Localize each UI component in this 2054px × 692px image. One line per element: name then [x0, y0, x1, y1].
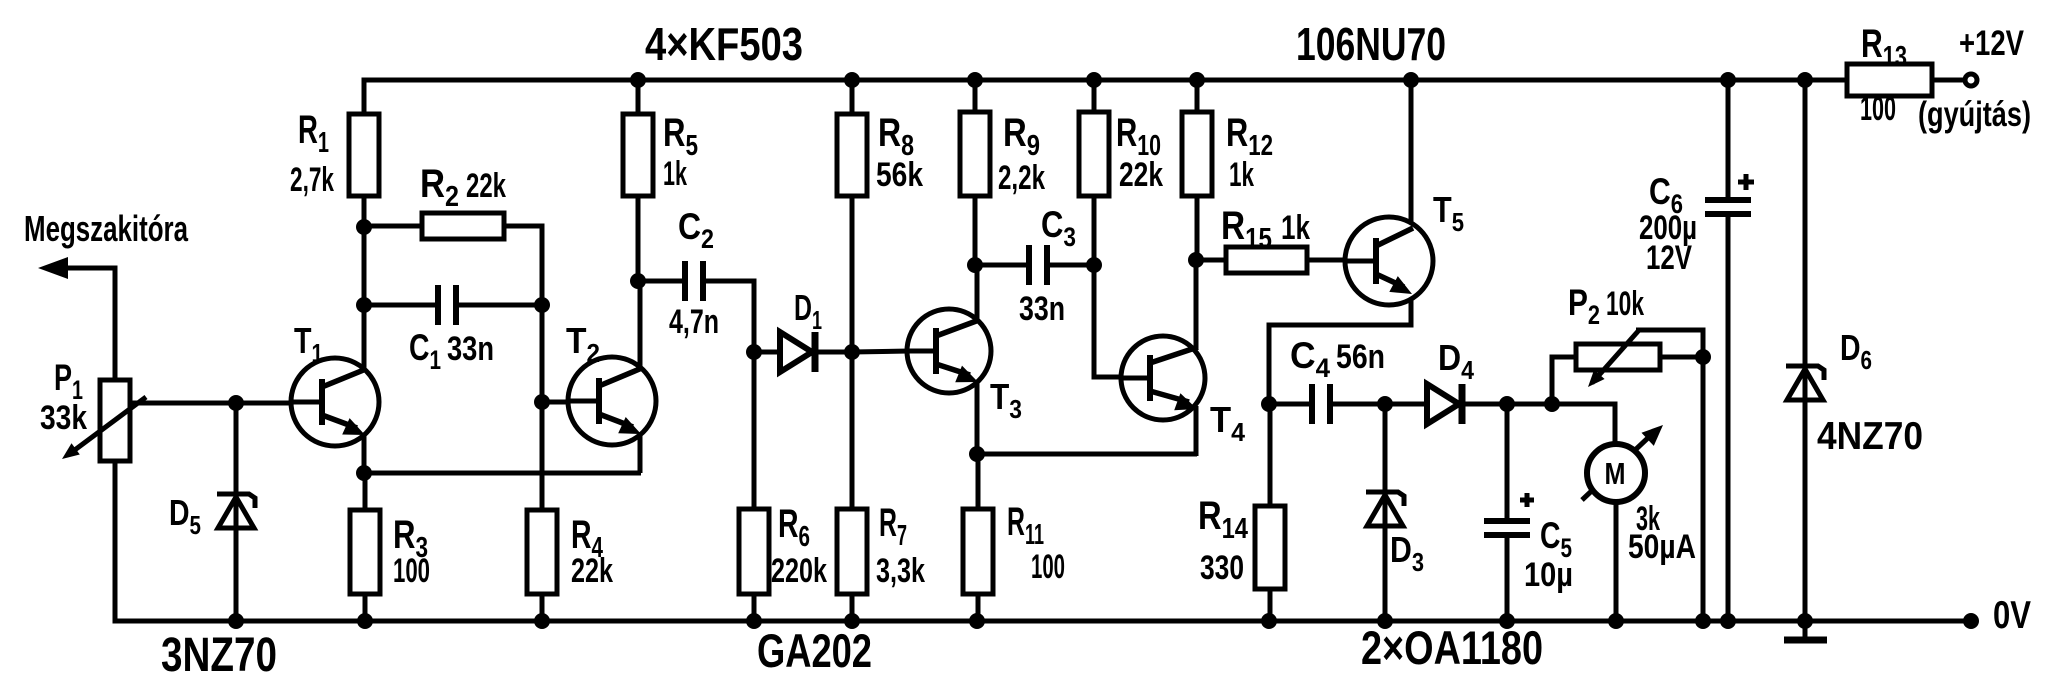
capacitor C2: [685, 261, 703, 301]
junction node (1385,404): [1377, 396, 1393, 412]
diode D4: [1427, 384, 1462, 424]
junction node (975,80): [967, 72, 983, 88]
terminal +12V: [1965, 74, 1977, 86]
value C6 12V: [1646, 239, 1692, 277]
label C1 value 33n: [409, 327, 494, 375]
label R10: [1116, 111, 1161, 162]
label type 2xOA1180: [1361, 621, 1543, 674]
junction node (236,403): [228, 395, 244, 411]
svg-text:22k: 22k: [1119, 156, 1163, 194]
label R7: [879, 501, 907, 552]
label D1: [794, 287, 822, 335]
junction node (1805,621): [1797, 613, 1813, 629]
value C2 4,7n: [669, 303, 719, 341]
junction node (542,402): [534, 394, 550, 410]
wire C2 left lead: [638, 279, 685, 284]
value R12 1k: [1229, 156, 1254, 194]
wire P2 node to 0V rail: [1701, 357, 1706, 621]
svg-text:2,2k: 2,2k: [998, 159, 1045, 197]
wire R2 left to R1 node: [364, 224, 422, 229]
label D4: [1438, 337, 1474, 385]
label R15 value 1k: [1221, 204, 1310, 255]
label 0V: [1993, 594, 2031, 637]
value R7 3,3k: [876, 552, 925, 590]
svg-text:0V: 0V: [1993, 594, 2031, 637]
label R2: [420, 162, 459, 213]
junction node (1094,265): [1086, 257, 1102, 273]
value R11 100: [1031, 548, 1065, 586]
junction node (638,80): [630, 72, 646, 88]
resistor R14: [1255, 404, 1285, 621]
label +12V: [1959, 24, 2025, 63]
svg-text:100: 100: [1031, 548, 1065, 586]
svg-text:100: 100: [393, 552, 430, 590]
zener diode D5: [217, 403, 255, 621]
label D3: [1390, 529, 1424, 577]
resistor R6: [739, 352, 769, 621]
value R14 330: [1200, 549, 1244, 587]
wire C4 left lead: [1269, 402, 1312, 407]
resistor R3: [350, 473, 380, 621]
wire C1 left lead: [364, 303, 438, 308]
svg-text:GA202: GA202: [757, 624, 872, 677]
wire C1 right lead: [456, 303, 542, 308]
label T1: [294, 320, 323, 368]
junction node (1728,80): [1720, 72, 1736, 88]
transistor T2: [568, 283, 656, 473]
label T2: [566, 320, 600, 368]
transistor T5: [1345, 80, 1433, 305]
junction node (977,454): [969, 446, 985, 462]
wire T1/T2 emitter link: [364, 471, 641, 476]
resistor R5: [623, 82, 653, 283]
wire P2 wiper tap: [1636, 330, 1703, 357]
label R5: [663, 111, 698, 162]
capacitor C5: [1484, 404, 1534, 621]
wire T2 base stub: [542, 400, 570, 405]
wire R15 left lead: [1196, 258, 1226, 263]
label P2 value 10k: [1568, 282, 1644, 330]
resistor R1: [349, 82, 379, 230]
label Megszakitora net: [24, 208, 189, 249]
wire T5 emitter to C4 node: [1269, 294, 1411, 406]
value R10 22k: [1119, 156, 1163, 194]
label R13: [1861, 22, 1907, 73]
value P1 33k: [40, 399, 87, 437]
wire C3 right lead: [1047, 263, 1094, 268]
junction node (542,621): [534, 613, 550, 629]
zener diode D3: [1366, 404, 1404, 621]
svg-text:330: 330: [1200, 549, 1244, 587]
label C3: [1041, 204, 1076, 252]
label gyujtas: [1918, 95, 2031, 134]
junction node (1805,80): [1797, 72, 1813, 88]
label R14: [1198, 494, 1248, 545]
label R1: [298, 108, 329, 159]
label R4: [571, 513, 603, 564]
svg-text:3NZ70: 3NZ70: [161, 629, 277, 682]
label R9: [1003, 111, 1040, 162]
value R2 22k: [466, 167, 506, 205]
svg-text:12V: 12V: [1646, 239, 1692, 277]
zener diode D6: [1786, 78, 1824, 638]
label D6 type 4NZ70: [1817, 415, 1923, 458]
junction node (754,352): [746, 344, 762, 360]
capacitor C4: [1312, 384, 1330, 424]
wire top +12V rail: [364, 80, 1847, 118]
svg-text:1k: 1k: [1229, 156, 1254, 194]
value C3 33n: [1019, 290, 1065, 328]
svg-text:100: 100: [1860, 90, 1896, 128]
svg-text:50µA: 50µA: [1628, 528, 1696, 566]
resistor R11: [963, 454, 993, 621]
junction node (365,621): [357, 613, 373, 629]
junction node (1728,621): [1720, 613, 1736, 629]
svg-text:22k: 22k: [466, 167, 506, 205]
junction node (1552,404): [1544, 396, 1560, 412]
resistor R9: [960, 82, 990, 267]
svg-text:4NZ70: 4NZ70: [1817, 415, 1923, 458]
resistor R15: [1226, 247, 1307, 273]
svg-text:+12V: +12V: [1959, 24, 2025, 63]
junction node (852,621): [844, 613, 860, 629]
svg-text:2×OA1180: 2×OA1180: [1361, 621, 1543, 674]
terminal 0V: [1963, 613, 1979, 629]
label D6: [1840, 327, 1872, 375]
wire bottom 0V rail: [115, 458, 1971, 621]
value R4 22k: [571, 552, 613, 590]
svg-text:56n: 56n: [1336, 338, 1385, 376]
resistor R12: [1182, 82, 1212, 262]
label R3: [393, 513, 428, 564]
value C5 10u: [1524, 556, 1573, 594]
transistor T4: [1121, 260, 1205, 456]
transistor T1: [291, 224, 379, 475]
label type 106NU70: [1296, 18, 1446, 70]
junction node (364,227): [356, 219, 372, 235]
resistor R10: [1079, 82, 1109, 265]
wire P1 wiper to T1 base: [130, 401, 293, 406]
junction node (1269,621): [1261, 613, 1277, 629]
svg-text:2,7k: 2,7k: [290, 161, 334, 199]
junction node (1197,80): [1189, 72, 1205, 88]
resistor R4: [527, 510, 557, 621]
label D5: [169, 492, 201, 540]
junction node (542,305): [534, 297, 550, 313]
junction node (852,80): [844, 72, 860, 88]
wire C2 right lead corner: [703, 281, 754, 354]
transistor T3: [907, 263, 991, 456]
label C4 value 56n: [1290, 335, 1385, 383]
label T5: [1433, 189, 1464, 237]
svg-text:56k: 56k: [876, 156, 923, 194]
svg-text:10k: 10k: [1606, 285, 1644, 323]
svg-text:33k: 33k: [40, 399, 87, 437]
junction node (638,281): [630, 273, 646, 289]
junction node (1196,260): [1188, 252, 1204, 268]
label R6: [778, 502, 810, 553]
label R11: [1007, 500, 1044, 551]
junction node (364,305): [356, 297, 372, 313]
wire P2 right lead: [1660, 355, 1703, 360]
wire C3 node to T4 base: [1094, 263, 1123, 377]
label type 3NZ70: [161, 629, 277, 682]
value R6 220k: [771, 552, 827, 590]
junction node (1703,621): [1695, 613, 1711, 629]
label type 4xKF503: [645, 18, 803, 70]
value R9 2,2k: [998, 159, 1045, 197]
value R8 56k: [876, 156, 923, 194]
junction node (1616,621): [1608, 613, 1624, 629]
svg-text:Megszakitóra: Megszakitóra: [24, 208, 189, 249]
diode D1: [780, 332, 815, 372]
junction node (1385,621): [1377, 613, 1393, 629]
svg-text:22k: 22k: [571, 552, 613, 590]
wire P2 left lead: [1552, 357, 1576, 404]
junction node (1094,80): [1086, 72, 1102, 88]
svg-text:4×KF503: 4×KF503: [645, 18, 803, 70]
svg-text:33n: 33n: [447, 330, 494, 368]
label C2: [678, 206, 714, 254]
wire D4 anode lead: [1385, 402, 1427, 407]
junction node (1269,404): [1261, 396, 1277, 412]
junction node (1507,621): [1499, 613, 1515, 629]
wire T3/T4 emitter link: [977, 452, 1197, 457]
wire D1 cathode to R8/R7 node: [817, 350, 852, 355]
svg-text:10µ: 10µ: [1524, 556, 1573, 594]
value R13 100: [1860, 90, 1896, 128]
svg-text:1k: 1k: [663, 155, 687, 193]
wire C4 right lead: [1330, 402, 1385, 407]
label P1: [54, 357, 83, 405]
svg-text:4,7n: 4,7n: [669, 303, 719, 341]
junction node (1507,404): [1499, 396, 1515, 412]
capacitor C1: [438, 285, 456, 325]
label T4: [1210, 399, 1246, 447]
svg-text:33n: 33n: [1019, 290, 1065, 328]
value C6 200u: [1639, 209, 1697, 247]
label C6: [1649, 171, 1683, 219]
resistor R2: [422, 213, 504, 239]
label C5: [1540, 515, 1572, 563]
meter M: [1582, 404, 1663, 621]
junction node (975,265): [967, 257, 983, 273]
junction node (1703,357): [1695, 349, 1711, 365]
label R12: [1226, 111, 1273, 162]
wire D4 node to meter corner: [1508, 404, 1615, 420]
wire C3 left lead: [975, 263, 1029, 268]
svg-text:1k: 1k: [1281, 209, 1310, 247]
junction node (236,621): [228, 613, 244, 629]
svg-text:106NU70: 106NU70: [1296, 18, 1446, 70]
svg-text:220k: 220k: [771, 552, 827, 590]
svg-text:3,3k: 3,3k: [876, 552, 925, 590]
junction node (977,621): [969, 613, 985, 629]
junction node (754,621): [746, 613, 762, 629]
svg-text:M: M: [1605, 456, 1626, 491]
svg-text:(gyújtás): (gyújtás): [1918, 95, 2031, 134]
value R1 2,7k: [290, 161, 334, 199]
resistor R8: [837, 82, 867, 352]
capacitor C3: [1029, 245, 1047, 285]
value R5 1k: [663, 155, 687, 193]
value R3 100: [393, 552, 430, 590]
potentiometer P1: [38, 257, 146, 461]
label T3: [990, 376, 1022, 424]
wire R2 right to T2 base column: [504, 226, 542, 512]
junction node (364,473): [356, 465, 372, 481]
wire T3 base stub: [852, 351, 909, 352]
wire R15 right lead: [1307, 258, 1346, 263]
wire D1 anode lead: [754, 350, 782, 355]
potentiometer P2: [1576, 329, 1660, 387]
label R8: [878, 111, 914, 162]
capacitor C6: [1705, 80, 1754, 621]
resistor R13: [1847, 64, 1963, 96]
junction node (852,352): [844, 344, 860, 360]
wire D4 cathode lead: [1462, 402, 1508, 407]
value meter 3k: [1636, 500, 1660, 538]
ground: [1784, 637, 1827, 644]
junction node (1411,80): [1403, 72, 1419, 88]
resistor R7: [837, 352, 867, 621]
value meter 50uA: [1628, 528, 1696, 566]
label type GA202: [757, 624, 872, 677]
